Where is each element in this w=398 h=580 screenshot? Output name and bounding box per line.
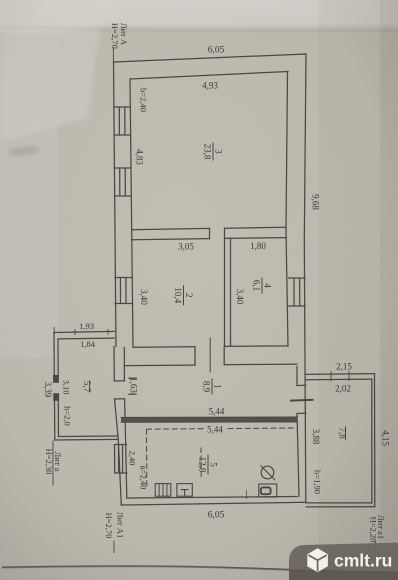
small tick on bottom wall bbox=[246, 491, 248, 499]
wall: room3/room2 upper line with door gap bbox=[132, 227, 286, 229]
room label 5 / 12,8 bbox=[198, 455, 219, 475]
leader line: Lit a1 (bottom right) bbox=[374, 542, 376, 553]
door jambs: room3/room2 door bbox=[210, 228, 225, 238]
wall: main left inner upper (rooms 3 and 2) bbox=[130, 79, 133, 347]
paper area below edge bbox=[0, 567, 398, 580]
paper fold crease line bbox=[0, 28, 398, 31]
door axis line: room2/room1 door bbox=[209, 338, 211, 372]
paper right darker edge bbox=[380, 0, 398, 580]
paper top-left bright corner bbox=[0, 0, 120, 34]
wall: main right inner upper (rooms 3 and 4) bbox=[286, 72, 288, 347]
fraction line: room 7,8 label bbox=[345, 427, 347, 440]
window W4 room5 left wall (protruding sill) bbox=[115, 445, 127, 474]
wall: middle band bottom upper line (rooms 2,4) bbox=[133, 346, 288, 347]
room label 2 / 10,4 bbox=[173, 285, 194, 305]
wall: main right outer bbox=[304, 54, 306, 503]
annex a1: right wall outer bbox=[374, 374, 376, 507]
watermark band darker bottom bbox=[289, 570, 398, 580]
window W3 room2 left wall bbox=[115, 278, 132, 304]
door leaf: door to annex a1 bbox=[291, 399, 313, 402]
dashed partition in room 5: horizontal bbox=[147, 428, 296, 429]
wall: main left outer upper bbox=[114, 62, 117, 347]
wall: main top outer (Lit A) bbox=[114, 54, 307, 62]
room label 1 / 8,9 bbox=[202, 379, 223, 395]
fraction line: room 5,7 label bbox=[89, 381, 91, 392]
window W5 room4 right wall bbox=[289, 278, 306, 306]
room label 3 / 23,8 bbox=[203, 143, 224, 161]
annex a: left wall outer with door gap bbox=[53, 333, 56, 441]
annex a: top wall outer bbox=[54, 331, 114, 332]
watermark band bbox=[289, 543, 398, 580]
wall: main bottom inner (room 5 floor line) bbox=[127, 497, 297, 499]
annex a: flue ticks on top wall bbox=[75, 329, 108, 334]
svg-text:cmlt.ru: cmlt.ru bbox=[334, 551, 392, 571]
wall: room1/room5 hatched partition bbox=[121, 417, 298, 422]
annex a: bottom wall inner bbox=[59, 435, 119, 438]
fixture: round stove circle with slash (room 5) bbox=[261, 466, 274, 479]
leader line: Lit a (bottom left annex) bbox=[52, 441, 54, 485]
paper bottom edge shadow line bbox=[2, 566, 398, 573]
wall: partition room2/room4 bbox=[225, 238, 231, 346]
wall: main left outer lower with door gap to annex a bbox=[114, 347, 121, 506]
wall: main bottom outer bbox=[121, 502, 305, 505]
wall: main top inner (room 3) bbox=[130, 72, 288, 80]
wall: middle band bottom lower line (room 1 top) bbox=[124, 364, 297, 366]
annex a1: right wall inner bbox=[371, 379, 373, 503]
dimension ticks for 1,63 bbox=[129, 378, 136, 394]
annex a: left wall inner with door gap bbox=[57, 339, 60, 437]
room label 4 / 6,1 bbox=[252, 278, 273, 294]
annex a1: top wall inner bbox=[306, 378, 372, 381]
annex a1: flue ticks on top wall bbox=[331, 371, 349, 381]
dashed partition in room 5: vertical right bbox=[200, 448, 202, 478]
watermark cube logo bbox=[307, 548, 328, 572]
annex a: dimension end ticks for 1,93 bbox=[54, 327, 116, 334]
paper left lighter zone bbox=[0, 28, 58, 358]
wall: main right inner lower (rooms 1 and 5) with door gap bbox=[297, 367, 299, 497]
window W1 room3 left wall bbox=[114, 107, 131, 135]
fixture: stove with hatching (room 5) bbox=[155, 484, 171, 497]
door jambs: left wall door to annex a bbox=[114, 381, 124, 399]
annex a1: bottom wall outer bbox=[306, 506, 375, 508]
paper top lighter strip above fold bbox=[0, 0, 398, 31]
annex a1: top wall outer bbox=[306, 373, 375, 376]
paper upper-left light patch bbox=[0, 26, 100, 142]
wall: main left inner lower with door gap bbox=[124, 348, 127, 499]
dashed partition in room 5: vertical left bbox=[146, 429, 148, 488]
leader line: Lit A1 (bottom) bbox=[113, 541, 115, 553]
annex a: top wall inner bbox=[58, 337, 114, 340]
annex a: bottom wall outer bbox=[55, 438, 118, 441]
leader line: Lit A (top left) bbox=[112, 49, 114, 62]
wall: room3/room2 lower line with door gap bbox=[132, 238, 286, 240]
door jambs: room2/room1 door bbox=[195, 346, 224, 365]
fixture: sink (room 5) bbox=[259, 484, 277, 497]
annex a1: bottom wall inner bbox=[306, 502, 372, 504]
paper smudge left bbox=[8, 146, 41, 157]
annex a: door jamb blocks on left wall bbox=[53, 375, 59, 383]
window W2 room3 left wall bbox=[114, 168, 131, 196]
door jambs: right wall door to annex a1 bbox=[297, 385, 306, 413]
fixture: boiler box with T (room 5) bbox=[177, 484, 192, 497]
